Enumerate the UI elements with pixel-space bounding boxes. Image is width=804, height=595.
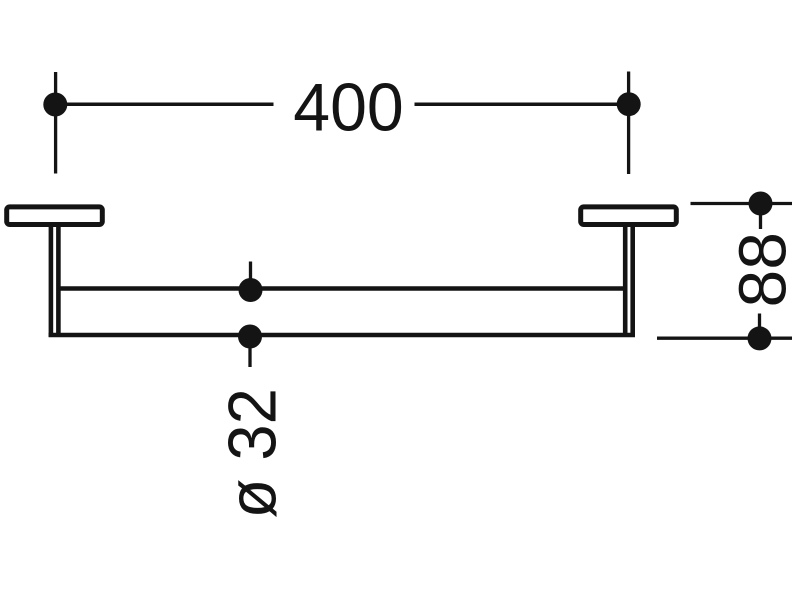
wall plate left xyxy=(7,207,103,225)
height dim bottom line (88) xyxy=(657,337,792,340)
bar bottom line xyxy=(49,333,635,338)
dimension dot right xyxy=(617,92,641,116)
dimension line 400 right segment xyxy=(415,102,629,106)
height dim bottom dot xyxy=(748,326,772,350)
right post inner line xyxy=(623,224,628,337)
extension line left (400 dim) xyxy=(54,72,57,174)
bar top line xyxy=(58,286,625,291)
right post outer line xyxy=(630,224,635,337)
diameter dot on bar top line xyxy=(239,278,263,302)
left post inner line xyxy=(56,224,61,337)
diameter tick below bottom dot xyxy=(248,348,251,367)
diameter dot on bar bottom line xyxy=(238,325,262,349)
diameter tick above top dot xyxy=(249,262,252,281)
svg-text:88: 88 xyxy=(726,232,801,308)
height dim top dot xyxy=(749,192,773,216)
height dim tick below top dot xyxy=(759,215,762,230)
dimension dot left xyxy=(43,93,67,117)
height dim top line (88) xyxy=(691,202,793,205)
svg-text:ø 32: ø 32 xyxy=(215,388,291,519)
height dim tick above bottom dot xyxy=(758,314,761,329)
left post outer line xyxy=(49,224,54,337)
dimension line 400 left segment xyxy=(56,102,274,106)
wall plate right xyxy=(581,207,677,225)
extension line right (400 dim) xyxy=(627,72,630,175)
svg-text:400: 400 xyxy=(293,70,404,146)
